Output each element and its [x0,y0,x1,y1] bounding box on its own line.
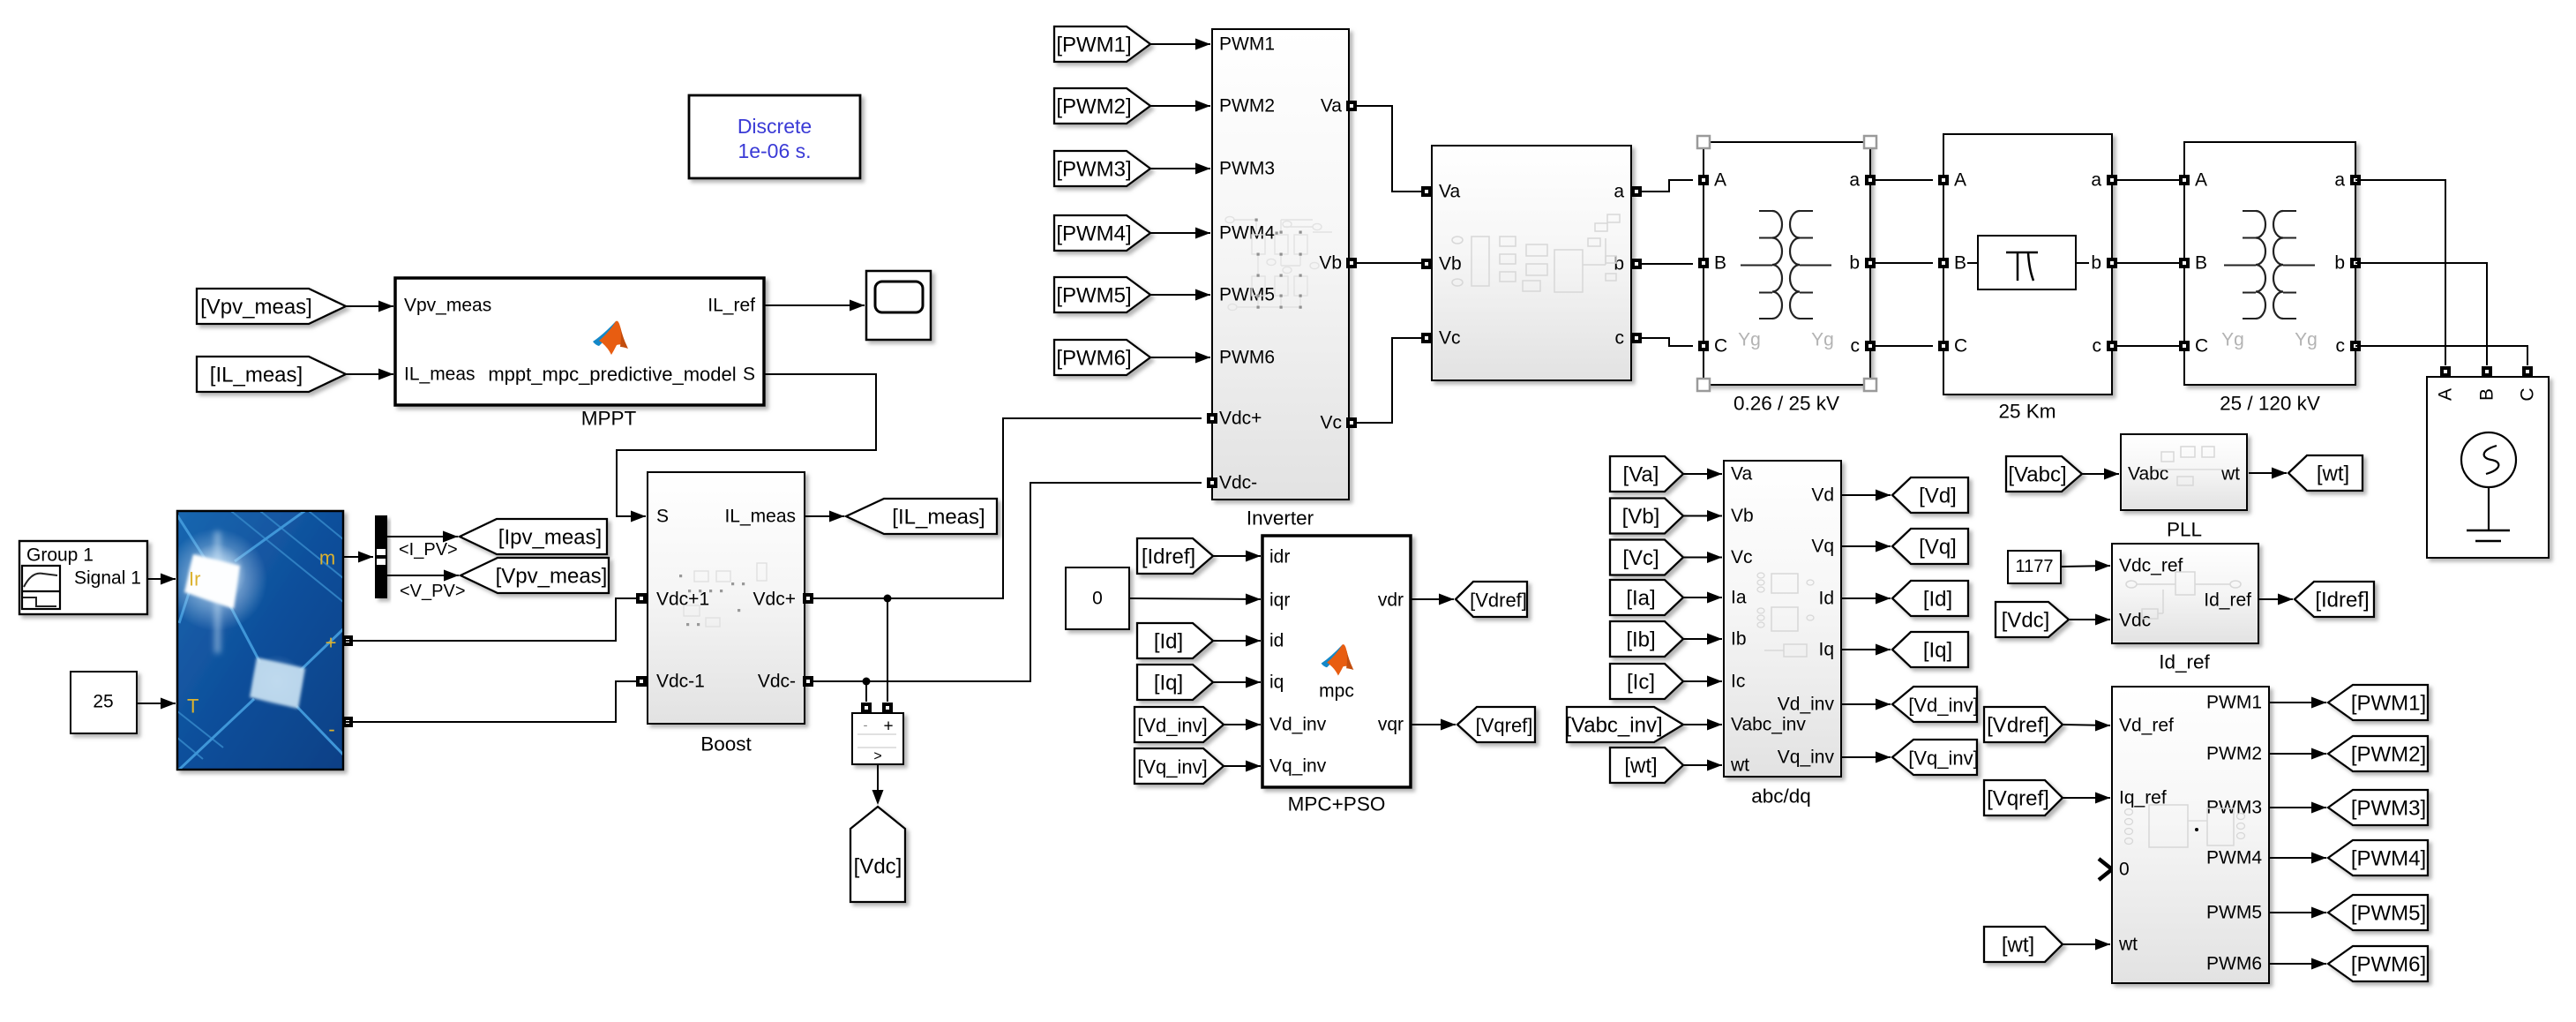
svg-text:25 Km: 25 Km [1998,401,2056,423]
svg-text:[Ic]: [Ic] [1627,671,1655,695]
svg-text:mpc: mpc [1319,681,1354,702]
svg-text:Vdc+: Vdc+ [1219,409,1262,429]
svg-text:Vdc-1: Vdc-1 [656,672,705,692]
svg-text:[Vdc]: [Vdc] [854,855,902,879]
svg-text:C: C [2195,336,2208,357]
svg-text:m: m [319,547,335,569]
svg-text:A: A [1954,170,1966,191]
svg-text:id: id [1269,631,1284,651]
svg-text:b: b [2334,253,2345,274]
svg-text:A: A [2436,388,2456,401]
svg-text:wt: wt [2220,464,2240,485]
svg-text:Vq_inv: Vq_inv [1778,748,1835,768]
svg-text:Vdc_ref: Vdc_ref [2119,556,2183,576]
svg-text:MPC+PSO: MPC+PSO [1288,793,1386,815]
svg-text:B: B [2195,253,2207,274]
svg-text:1177: 1177 [2015,557,2053,576]
svg-text:Vabc: Vabc [2128,464,2168,485]
svg-text:[wt]: [wt] [2317,462,2349,486]
svg-text:PWM4: PWM4 [1219,223,1275,244]
svg-text:[PWM2]: [PWM2] [1056,95,1131,119]
svg-text:Vabc_inv: Vabc_inv [1731,715,1806,735]
svg-text:PWM2: PWM2 [1219,96,1275,116]
svg-text:MPPT: MPPT [581,408,637,430]
svg-text:[Vq_inv]: [Vq_inv] [1137,756,1208,778]
svg-text:[Ipv_meas]: [Ipv_meas] [498,526,602,550]
svg-text:Inverter: Inverter [1247,507,1314,530]
svg-text:abc/dq: abc/dq [1751,785,1811,808]
svg-text:iq: iq [1269,673,1284,693]
svg-text:[PWM6]: [PWM6] [2351,953,2426,977]
svg-text:b: b [1849,253,1860,274]
svg-text:[Vdref]: [Vdref] [1470,590,1527,612]
svg-text:c: c [2336,336,2346,357]
svg-text:Vq_inv: Vq_inv [1269,756,1327,777]
svg-text:c: c [2093,336,2102,357]
svg-text:Vdc+: Vdc+ [753,590,796,610]
svg-text:Ib: Ib [1731,629,1747,650]
svg-text:1e-06 s.: 1e-06 s. [738,139,811,162]
svg-text:[PWM5]: [PWM5] [1056,284,1131,308]
svg-text:S: S [656,507,669,527]
svg-text:a: a [1614,182,1624,202]
svg-text:[Vdref]: [Vdref] [1987,714,2049,738]
svg-text:Id_ref: Id_ref [2159,651,2210,673]
svg-text:c: c [1615,328,1625,349]
svg-text:PWM2: PWM2 [2206,744,2262,764]
svg-text:A: A [1714,170,1726,191]
svg-text:Id: Id [1818,589,1834,609]
svg-text:PWM6: PWM6 [2206,954,2262,974]
svg-text:Vd_inv: Vd_inv [1269,715,1327,735]
svg-text:Vc: Vc [1731,547,1753,567]
svg-text:a: a [2091,170,2101,191]
svg-text:>: > [873,749,881,764]
svg-text:Vb: Vb [1319,253,1342,274]
svg-text:A: A [2195,170,2207,191]
svg-text:B: B [1714,253,1726,274]
svg-text:-: - [328,718,334,740]
svg-text:wt: wt [1730,755,1749,776]
svg-text:[Vdc]: [Vdc] [2002,609,2050,633]
svg-text:[Idref]: [Idref] [2315,589,2369,612]
svg-text:b: b [1614,254,1624,274]
svg-text:0: 0 [1092,589,1103,609]
svg-text:[PWM6]: [PWM6] [1056,347,1131,371]
svg-text:B: B [1954,253,1966,274]
svg-text:Ic: Ic [1731,672,1745,692]
svg-text:Id_ref: Id_ref [2204,590,2251,611]
svg-text:[Vq]: [Vq] [1919,536,1957,560]
svg-text:+: + [326,632,337,654]
svg-text:[PWM1]: [PWM1] [1056,34,1131,57]
svg-text:PWM3: PWM3 [1219,159,1275,179]
svg-text:PWM4: PWM4 [2206,848,2262,868]
svg-text:[Vpv_meas]: [Vpv_meas] [496,565,608,589]
svg-text:mppt_mpc_predictive_model: mppt_mpc_predictive_model [488,364,736,386]
svg-text:<V_PV>: <V_PV> [400,582,466,601]
svg-text:Yg: Yg [2295,330,2318,350]
svg-text:Boost: Boost [700,733,752,755]
svg-text:vqr: vqr [1378,715,1404,735]
svg-text:Vdc: Vdc [2119,611,2151,631]
svg-text:[Vpv_meas]: [Vpv_meas] [200,296,312,319]
svg-text:25 / 120 kV: 25 / 120 kV [2220,393,2320,415]
svg-text:Vd_inv: Vd_inv [1778,695,1835,715]
svg-text:[PWM4]: [PWM4] [2351,847,2426,871]
svg-text:Vc: Vc [1439,328,1461,349]
svg-text:vdr: vdr [1378,590,1404,611]
svg-text:[Vd_inv]: [Vd_inv] [1137,715,1208,737]
svg-text:[PWM5]: [PWM5] [2351,902,2426,926]
svg-text:[Va]: [Va] [1623,463,1659,487]
svg-text:Ia: Ia [1731,588,1747,608]
svg-text:Va: Va [1439,182,1460,202]
svg-text:PWM1: PWM1 [1219,34,1275,55]
svg-text:PWM1: PWM1 [2206,693,2262,713]
svg-text:a: a [1849,170,1860,191]
svg-text:PWM5: PWM5 [2206,903,2262,923]
svg-text:Vd_ref: Vd_ref [2119,716,2174,736]
svg-text:Vd: Vd [1811,485,1834,506]
svg-text:Iq: Iq [1818,640,1834,660]
svg-text:Vb: Vb [1731,506,1754,526]
svg-text:Vb: Vb [1439,254,1462,274]
svg-text:PLL: PLL [2167,519,2202,541]
svg-text:IL_meas: IL_meas [724,507,796,527]
svg-text:T: T [187,695,198,718]
svg-text:[wt]: [wt] [1624,755,1657,778]
svg-text:[PWM4]: [PWM4] [1056,222,1131,246]
svg-text:Ir: Ir [189,568,200,590]
svg-text:c: c [1851,336,1861,357]
svg-text:idr: idr [1269,547,1290,567]
svg-text:[Iq]: [Iq] [1923,639,1952,663]
svg-text:Va: Va [1321,96,1342,116]
svg-text:B: B [2477,388,2497,401]
svg-text:0.26 / 25 kV: 0.26 / 25 kV [1734,393,1839,415]
svg-text:Group 1: Group 1 [26,545,94,566]
svg-text:Vc: Vc [1320,413,1342,433]
svg-text:Yg: Yg [1738,330,1761,350]
svg-text:[wt]: [wt] [2002,934,2034,958]
svg-text:-: - [864,718,868,733]
svg-text:[Ib]: [Ib] [1626,628,1655,652]
svg-text:+: + [883,718,893,736]
svg-text:[Vabc_inv]: [Vabc_inv] [1565,714,1662,738]
svg-text:[PWM3]: [PWM3] [2351,797,2426,821]
svg-text:wt: wt [2118,935,2138,955]
svg-text:0: 0 [2119,860,2130,880]
svg-text:IL_ref: IL_ref [708,296,755,316]
svg-text:[Idref]: [Idref] [1142,545,1195,569]
svg-text:C: C [1954,336,1967,357]
svg-text:25: 25 [93,692,113,712]
svg-text:[Id]: [Id] [1154,630,1183,654]
svg-text:Vpv_meas: Vpv_meas [404,296,491,316]
svg-text:Discrete: Discrete [738,115,812,138]
svg-text:[IL_meas]: [IL_meas] [892,506,985,530]
svg-text:[PWM2]: [PWM2] [2351,743,2426,767]
svg-text:Vq: Vq [1811,537,1834,557]
svg-text:b: b [2091,253,2101,274]
svg-text:[Id]: [Id] [1923,588,1952,612]
svg-text:PWM5: PWM5 [1219,285,1275,305]
svg-text:S: S [743,364,755,385]
svg-text:[Vd_inv]: [Vd_inv] [1908,695,1979,717]
svg-text:[Vb]: [Vb] [1622,505,1660,529]
svg-text:[Vqref]: [Vqref] [1987,787,2049,811]
svg-text:[Vc]: [Vc] [1622,546,1659,570]
svg-text:[Vq_inv]: [Vq_inv] [1908,748,1979,770]
svg-text:[PWM3]: [PWM3] [1056,158,1131,182]
svg-text:IL_meas: IL_meas [404,364,476,385]
svg-text:iqr: iqr [1269,590,1290,611]
svg-text:Vdc-: Vdc- [1219,473,1257,493]
svg-text:a: a [2334,170,2345,191]
svg-text:Yg: Yg [1811,330,1834,350]
svg-text:Signal 1: Signal 1 [74,568,141,589]
svg-text:[Ia]: [Ia] [1626,587,1655,611]
svg-text:[Vd]: [Vd] [1919,485,1957,508]
svg-text:PWM6: PWM6 [1219,348,1275,368]
svg-text:[Iq]: [Iq] [1154,672,1183,695]
svg-text:Yg: Yg [2221,330,2244,350]
svg-text:[Vqref]: [Vqref] [1476,715,1533,737]
svg-text:C: C [2518,387,2538,401]
svg-text:[IL_meas]: [IL_meas] [210,364,303,387]
svg-text:[Vabc]: [Vabc] [2008,463,2066,487]
svg-text:<I_PV>: <I_PV> [399,540,458,560]
svg-text:[PWM1]: [PWM1] [2351,692,2426,716]
svg-text:Vdc-: Vdc- [758,672,796,692]
svg-text:Va: Va [1731,464,1752,485]
svg-text:C: C [1714,336,1727,357]
